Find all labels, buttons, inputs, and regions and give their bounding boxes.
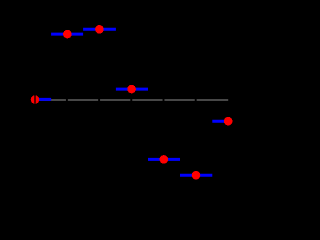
tick x=5 [195, 99, 197, 102]
x-axis [35, 99, 228, 101]
data point (6, -0.28) [224, 117, 233, 126]
data point (4, -0.76) [160, 155, 169, 164]
tick x=3 [130, 99, 132, 102]
tick x=4 [163, 99, 165, 102]
step segment 4 [148, 158, 180, 161]
data point (2, 0.91) [95, 25, 104, 34]
data point (1, 0.84) [63, 30, 72, 39]
data point (5, -0.96) [192, 171, 201, 180]
y-axis (black, visible only where it crosses the first data point) [34, 0, 35, 200]
step segment 0 [35, 98, 51, 101]
step segment 5 [180, 174, 212, 177]
step segment 6 [212, 120, 228, 123]
step segment 2 [83, 28, 116, 31]
tick x=2 [98, 99, 100, 102]
step segment 1 [51, 33, 83, 36]
data point (3, 0.14) [127, 85, 136, 94]
tick x=1 [66, 99, 68, 102]
data point (0, 0) [31, 95, 40, 104]
step segment 3 [116, 88, 148, 91]
